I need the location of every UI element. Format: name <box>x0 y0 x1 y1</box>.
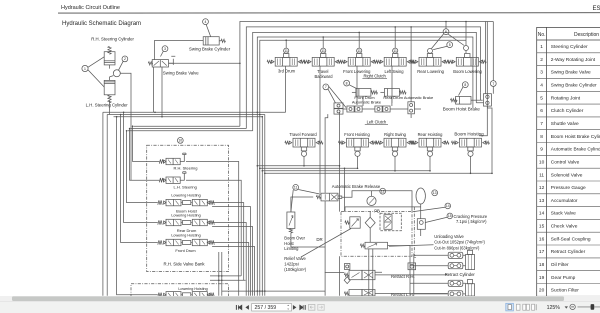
retract L.H. valve <box>344 292 349 295</box>
valve 3rd drum <box>275 57 297 66</box>
wire swing cylinder to valve <box>155 41 204 60</box>
svg-text:17: 17 <box>539 249 545 255</box>
svg-text:Rotating Joint: Rotating Joint <box>551 95 581 101</box>
svg-text:19: 19 <box>539 275 545 281</box>
zoom-out button <box>570 304 575 309</box>
svg-text:Swing Brake Cylinder: Swing Brake Cylinder <box>189 47 231 52</box>
valve front drum bank <box>158 240 162 244</box>
valve boom lowering <box>456 57 478 66</box>
svg-text:Rear Lowering: Rear Lowering <box>417 69 444 74</box>
leader web to lowering pilots <box>432 34 465 50</box>
leader relief valve <box>301 229 351 258</box>
rotating joint (item 2) <box>113 70 120 77</box>
svg-text:R.H. Side Valve Bank: R.H. Side Valve Bank <box>164 262 206 267</box>
leaders circle 11 <box>291 190 321 212</box>
svg-text:6: 6 <box>445 30 447 34</box>
wire pb header <box>345 207 421 212</box>
pilot circle travel forward <box>301 151 306 156</box>
svg-text:Accumulator: Accumulator <box>551 198 578 204</box>
swing brake cylinder (item 4) <box>203 37 219 45</box>
svg-text:Limiting: Limiting <box>284 246 299 251</box>
junction dots bottom center <box>218 275 220 277</box>
svg-text:Automatic Brake Release: Automatic Brake Release <box>332 184 381 189</box>
dash-dot boundary right of power unit <box>413 207 415 256</box>
wire rail 1 with right drop <box>240 22 493 136</box>
wire drop travel backward to solenoid <box>319 66 321 193</box>
table column divider <box>546 27 548 296</box>
svg-text:Shuttle Valve: Shuttle Valve <box>551 121 579 127</box>
pilot circle right swing <box>392 151 397 156</box>
previous-view button (disabled) <box>309 304 315 310</box>
dashed sub-box solenoid <box>380 213 401 230</box>
wire mid bus 2 <box>260 168 358 211</box>
next-view button (disabled) <box>318 304 324 310</box>
wire rail 4 <box>257 37 473 296</box>
svg-text:Swing Brake Valve: Swing Brake Valve <box>551 70 591 76</box>
callout circle 7 boom <box>490 81 496 87</box>
scrollbar thumb <box>12 296 564 301</box>
leader <box>459 87 464 96</box>
valve L.H. bank row <box>158 293 162 297</box>
wire boom over hoist connections <box>291 197 325 247</box>
svg-text:Boom Hoisting: Boom Hoisting <box>454 132 484 137</box>
table row lines <box>537 53 600 284</box>
table header bottom line <box>537 39 600 41</box>
swing brake valve (item 3) <box>152 60 168 67</box>
valve front lowering <box>348 57 370 66</box>
callout circle 3 <box>162 46 168 52</box>
svg-text:8: 8 <box>540 134 543 140</box>
two-page mode button <box>523 304 526 310</box>
svg-text:5: 5 <box>449 43 451 47</box>
wire L.H. cylinder to bus <box>110 73 132 180</box>
dashed box R.H. side valve bank <box>147 145 229 271</box>
svg-text:Right Clutch: Right Clutch <box>364 73 387 78</box>
zoom slider handle <box>591 304 595 310</box>
svg-text:Suction Filter: Suction Filter <box>551 288 579 294</box>
callout circle 8 <box>344 80 350 86</box>
svg-text:Boom Hoist Brake Cylin: Boom Hoist Brake Cylin <box>551 134 600 140</box>
solenoid valve automatic brake release <box>321 193 338 201</box>
svg-text:PB: PB <box>374 208 380 213</box>
filter and check left of retract valve <box>345 264 350 270</box>
svg-text:Unloading Valve: Unloading Valve <box>434 234 464 239</box>
svg-text:L.H. Steering: L.H. Steering <box>174 184 197 189</box>
callout circle 5 <box>447 42 453 48</box>
wires cylinders to shuttles <box>357 66 392 106</box>
svg-text:Hydraulic Schematic Diagram: Hydraulic Schematic Diagram <box>62 21 141 27</box>
shuttle valve pair B <box>347 106 354 112</box>
svg-text:Description: Description <box>574 32 599 38</box>
valve boom hoisting <box>460 138 482 147</box>
pilot circle 3rd drum <box>284 48 289 53</box>
wire unloading valve east <box>388 246 411 254</box>
svg-text:Rear Drum: Rear Drum <box>177 228 197 233</box>
relief valve in power unit <box>350 217 360 228</box>
svg-text:11: 11 <box>539 172 544 178</box>
wire couplings west <box>410 255 466 294</box>
callout circle 11 <box>293 185 299 191</box>
cylinder front drum automatic brake <box>356 89 371 97</box>
wire rail 3 <box>253 32 477 130</box>
wire check valve down <box>420 229 422 236</box>
pilot circle front lowering <box>357 48 362 53</box>
pilot circle front hoisting <box>355 151 360 156</box>
svg-text:No.: No. <box>538 32 546 38</box>
table outer border <box>537 27 600 296</box>
scrollbar track <box>0 296 600 301</box>
pilot circle rear hoisting <box>427 151 432 156</box>
svg-text:14: 14 <box>446 204 450 208</box>
valve left swing <box>384 57 406 66</box>
svg-text:Retract Cylinder: Retract Cylinder <box>551 249 586 255</box>
svg-text:4: 4 <box>205 20 207 24</box>
svg-text:Self-Seal Coupling: Self-Seal Coupling <box>551 236 591 242</box>
callout circle 2 <box>122 56 128 62</box>
junction dots mid <box>257 165 259 167</box>
callout circle 7 <box>323 84 329 90</box>
wire drop 3rd drum to bus <box>285 66 287 112</box>
callout circle 8 boom <box>462 82 468 88</box>
wire rail 5 <box>260 22 466 296</box>
pressure gauge (item 12) <box>367 196 376 205</box>
wire stem to circle 6 <box>445 22 447 29</box>
svg-text:Clutch Cylinder: Clutch Cylinder <box>551 108 584 114</box>
accumulator (item 13) <box>416 188 425 204</box>
retract cylinder upper (item 17) <box>468 250 473 254</box>
svg-text:Check Valve: Check Valve <box>551 224 578 230</box>
wire accumulator down to check valve <box>420 204 422 219</box>
svg-text:8: 8 <box>464 83 466 87</box>
svg-text:12: 12 <box>381 190 385 194</box>
check valve cracking pressure (item 15) <box>417 219 425 230</box>
leader circle 14 <box>413 207 446 212</box>
svg-text:10: 10 <box>539 159 545 165</box>
svg-text:11: 11 <box>321 49 325 53</box>
valve rear lowering <box>419 57 441 66</box>
two-page-continuous mode button <box>532 304 535 310</box>
svg-text:Cut-Out 1052psi (74kg/cm²): Cut-Out 1052psi (74kg/cm²) <box>434 240 485 245</box>
leader from circle 2 <box>119 61 124 70</box>
svg-text:11: 11 <box>294 186 298 190</box>
retract R.H. valve <box>344 273 349 276</box>
svg-text:Gear Pump: Gear Pump <box>551 275 576 281</box>
wire pilot drops from rails <box>286 27 395 48</box>
svg-text:2: 2 <box>124 57 126 61</box>
svg-text:DR: DR <box>316 237 322 242</box>
svg-text:Rear Hoisting: Rear Hoisting <box>418 132 444 137</box>
svg-text:Boom Hoist Brake: Boom Hoist Brake <box>443 106 480 111</box>
wire vertical left pair <box>103 112 107 295</box>
svg-text:Control Valve: Control Valve <box>551 159 580 165</box>
svg-text:1422psi: 1422psi <box>284 261 298 266</box>
svg-text:Pressure Gauge: Pressure Gauge <box>551 185 586 191</box>
first-page button <box>238 305 241 309</box>
svg-text:Solenoid Valve: Solenoid Valve <box>551 172 583 178</box>
unloading valve <box>365 242 388 249</box>
cylinder boom hoist brake <box>456 96 471 104</box>
svg-text:4: 4 <box>540 83 543 89</box>
svg-text:1: 1 <box>540 44 543 50</box>
svg-text:Hydraulic Circuit Outline: Hydraulic Circuit Outline <box>61 5 120 11</box>
wire swing valve east <box>169 62 240 64</box>
pilot circle travel backward <box>321 48 326 53</box>
wire clutch supply vertical <box>410 27 412 102</box>
leader lines from circle 1 <box>88 57 104 87</box>
toolbar background strip <box>0 296 600 313</box>
callout circle 14 <box>445 203 451 209</box>
pilot circle boom hoisting <box>468 151 473 156</box>
toolbar top edge <box>0 301 600 303</box>
header rule <box>58 12 600 14</box>
svg-text:2: 2 <box>540 57 543 63</box>
svg-text:Swing Brake Cylinder: Swing Brake Cylinder <box>551 83 597 89</box>
svg-text:Retract Cylinder: Retract Cylinder <box>445 272 476 277</box>
shuttle valve E <box>484 94 492 106</box>
svg-text:ES: ES <box>593 6 600 12</box>
wires shuttle row <box>343 108 421 110</box>
wire shuttle A down to pump line <box>325 114 411 193</box>
leader from circle 8 <box>349 85 357 89</box>
svg-text:6: 6 <box>540 108 543 114</box>
svg-text:18: 18 <box>539 262 545 268</box>
svg-text:2-Way Rotating Joint: 2-Way Rotating Joint <box>551 57 596 63</box>
svg-text:15: 15 <box>539 224 545 230</box>
svg-text:13: 13 <box>433 191 437 195</box>
svg-text:7: 7 <box>492 82 494 86</box>
callout circle 13 <box>432 190 438 196</box>
svg-text:Automatic Brake: Automatic Brake <box>352 100 382 105</box>
lever of swing brake valve <box>169 56 176 65</box>
callout circle 12 <box>380 188 386 194</box>
svg-text:(100kg/cm²): (100kg/cm²) <box>284 267 306 272</box>
wire filter stem <box>369 212 371 243</box>
wire bundle into valve bank rows <box>117 112 160 294</box>
svg-text:7.1psi (.5kg/cm²): 7.1psi (.5kg/cm²) <box>456 219 487 224</box>
svg-text:12: 12 <box>539 185 545 191</box>
wire solenoid to gauge line <box>342 191 412 212</box>
boom over hoist limiting valve <box>287 212 295 229</box>
zoom slider track <box>578 306 600 308</box>
callout circle 10 <box>177 138 183 144</box>
svg-text:Steering Cylinder: Steering Cylinder <box>551 44 588 50</box>
oil filter diamond (item 18) <box>365 217 375 228</box>
svg-text:11: 11 <box>393 49 397 53</box>
svg-text:R.H. Steering Cylinder: R.H. Steering Cylinder <box>91 37 134 42</box>
svg-text:10: 10 <box>178 139 182 143</box>
svg-text:3: 3 <box>164 47 166 51</box>
svg-text:Right Swing: Right Swing <box>384 132 407 137</box>
callout circle 15 <box>447 213 453 219</box>
svg-text:16: 16 <box>539 236 545 242</box>
wire mid bus 1 <box>257 112 339 296</box>
svg-text:3: 3 <box>540 70 543 76</box>
solenoid valve in power unit <box>384 215 392 230</box>
cylinder R.H. steering <box>104 52 115 65</box>
svg-text:Boom Over: Boom Over <box>284 236 305 241</box>
svg-text:11: 11 <box>357 49 361 53</box>
wire bottom-center links <box>210 252 325 296</box>
wire swing valve down to bus <box>154 67 162 117</box>
wire mid bus 3 <box>262 170 430 172</box>
callout circle 4 <box>203 19 209 25</box>
svg-text:Lowering Hoisting: Lowering Hoisting <box>171 234 200 238</box>
svg-text:257 / 359: 257 / 359 <box>255 305 277 311</box>
svg-text:20: 20 <box>539 288 545 294</box>
wire mid bus 4 <box>265 172 492 174</box>
dashed box L.H. side valve bank <box>131 284 229 297</box>
self-seal couplings (item 16) <box>448 252 463 258</box>
leader unloading <box>389 245 434 247</box>
pilot circle boom lowering <box>464 46 469 51</box>
valve travel forward <box>293 138 315 147</box>
svg-text:Lowering Hoisting: Lowering Hoisting <box>171 194 200 198</box>
valve L.H. steering <box>159 178 163 182</box>
wire center verticals <box>262 115 265 296</box>
retract cylinder lower <box>468 280 473 284</box>
svg-text:7: 7 <box>325 85 327 89</box>
cylinder rear drum automatic brake <box>384 89 399 97</box>
svg-text:Front Hoisting: Front Hoisting <box>344 132 370 137</box>
last-page button <box>300 305 303 309</box>
svg-text:14: 14 <box>539 211 545 217</box>
svg-text:Cut-In 896psi (63kg/cm²): Cut-In 896psi (63kg/cm²) <box>434 245 480 250</box>
next-page button <box>293 305 297 310</box>
valve rear hoisting <box>419 138 441 147</box>
svg-text:8: 8 <box>346 81 348 85</box>
cylinder L.H. steering <box>104 80 115 94</box>
valve right swing <box>384 138 406 147</box>
svg-text:Automatic Brake Cylind: Automatic Brake Cylind <box>551 147 600 153</box>
valve front hoisting <box>347 138 369 147</box>
svg-text:13: 13 <box>539 198 545 204</box>
wire rail 2 <box>246 27 480 129</box>
svg-text:Swing Brake Valve: Swing Brake Valve <box>163 70 199 75</box>
svg-text:Hoist: Hoist <box>284 241 294 246</box>
pilot stems upper row <box>286 52 430 55</box>
wire shuttle E connections <box>476 22 492 174</box>
svg-text:Lowering Hoisting: Lowering Hoisting <box>178 287 207 291</box>
wire retract rh connections <box>325 272 448 275</box>
svg-text:1: 1 <box>84 67 86 71</box>
prev-page button <box>245 305 249 310</box>
table text <box>538 32 600 294</box>
pilot circle rear lowering <box>428 48 433 53</box>
dashed box power unit <box>341 212 412 257</box>
leaders from circle 7 <box>328 86 346 107</box>
check valve on retract line <box>408 263 416 270</box>
junction dots on bus <box>132 125 134 127</box>
svg-text:Boom Lowering: Boom Lowering <box>453 69 482 74</box>
shuttle valve pair C <box>375 106 382 112</box>
svg-text:Stack Valve: Stack Valve <box>551 211 576 217</box>
wire horizontal bus B <box>128 126 253 131</box>
callout circle 1 <box>82 65 88 71</box>
shuttle valve D <box>408 102 415 114</box>
svg-text:Rear Drum Automatic Brake: Rear Drum Automatic Brake <box>383 95 434 100</box>
wire retract lh connections <box>375 293 448 295</box>
svg-text:7: 7 <box>540 121 543 127</box>
callout circle 6 <box>443 29 449 35</box>
svg-text:9: 9 <box>540 147 543 153</box>
svg-text:Travel Forward: Travel Forward <box>289 132 317 137</box>
valve boom hoist bank <box>158 200 162 204</box>
wire drops below power unit <box>325 201 414 296</box>
svg-text:Front Drum: Front Drum <box>175 248 196 253</box>
svg-text:15: 15 <box>448 214 452 218</box>
wire circle 7 boom stem <box>492 22 494 94</box>
svg-text:Relief Valve: Relief Valve <box>284 256 306 261</box>
svg-text:Lowering Hoisting: Lowering Hoisting <box>171 214 200 218</box>
svg-text:Left Swing: Left Swing <box>384 69 404 74</box>
single-page mode button (selected) <box>506 303 514 311</box>
svg-text:3rd Drum: 3rd Drum <box>278 69 296 74</box>
pilot circle left swing <box>393 48 398 53</box>
svg-text:11: 11 <box>284 49 288 53</box>
valve travel backward <box>312 57 334 66</box>
svg-text:125%: 125% <box>547 305 561 311</box>
svg-text:L.H. Steering Cylinder: L.H. Steering Cylinder <box>86 102 129 107</box>
svg-text:5: 5 <box>540 95 543 101</box>
shuttle valve pair A <box>334 103 343 108</box>
continuous mode button <box>516 304 520 310</box>
svg-text:Left Clutch: Left Clutch <box>367 119 387 124</box>
wire horizontal bus A <box>103 112 286 116</box>
leader circle 15 <box>425 217 447 222</box>
svg-text:R.H. Steering: R.H. Steering <box>174 166 198 171</box>
valve R.H. steering <box>159 159 163 163</box>
page number field <box>252 304 292 311</box>
svg-text:Oil Filter: Oil Filter <box>551 262 569 268</box>
zoom dropdown caret <box>565 306 568 308</box>
valve rear drum bank <box>158 220 162 224</box>
wire bank exits to center verticals <box>186 162 254 296</box>
svg-text:Backward: Backward <box>315 74 334 79</box>
